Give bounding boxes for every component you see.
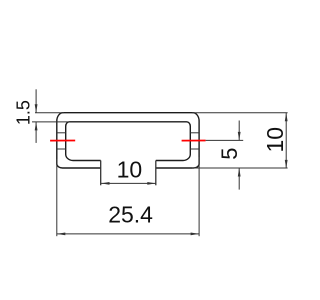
- extension line top left for 1.5: [35, 112, 64, 114]
- svg-text:1.5: 1.5: [13, 100, 33, 125]
- wall tick right upper: [190, 132, 199, 134]
- dimension 10 notch line: [101, 182, 156, 184]
- extension line left for 25.4: [56, 159, 58, 236]
- extension line for 5 top: [206, 139, 244, 141]
- extension line bottom right for 10 and 5: [192, 167, 288, 169]
- dimension 5 upper line with arrow: [238, 121, 240, 141]
- svg-text:25.4: 25.4: [108, 202, 153, 228]
- dimension 1.5 lower line with arrow: [35, 122, 37, 143]
- arrow left of 25.4: [57, 233, 66, 236]
- wall tick left lower: [57, 148, 66, 150]
- arrow left of notch 10: [101, 182, 110, 185]
- dimension 1.5 upper line with arrow: [35, 89, 37, 112]
- svg-text:10: 10: [262, 127, 288, 153]
- wire left notch step / extension line of 10: [100, 161, 102, 186]
- arrow bottom of right 10: [285, 160, 288, 169]
- dimension 25.4 line: [57, 233, 199, 235]
- profile inner contour: [66, 122, 191, 161]
- wall tick right lower: [190, 148, 199, 150]
- extension line right for 25.4: [198, 157, 200, 236]
- svg-text:5: 5: [217, 147, 242, 159]
- wire right notch step / extension line of 10: [155, 161, 157, 186]
- red weld mark left: [50, 140, 75, 142]
- extension line top right for 10: [192, 112, 288, 114]
- arrow right of 25.4: [191, 233, 200, 236]
- red weld mark right: [182, 140, 206, 142]
- profile outer contour: [57, 113, 199, 168]
- svg-text:10: 10: [117, 157, 143, 183]
- dimension 5 lower line with arrow: [238, 168, 240, 190]
- arrow top of right 10: [285, 113, 288, 122]
- wall tick left upper: [57, 132, 66, 134]
- dimension 10 right line: [285, 113, 287, 169]
- extension line lower for 1.5: [32, 121, 70, 123]
- arrow right of notch 10: [147, 182, 156, 185]
